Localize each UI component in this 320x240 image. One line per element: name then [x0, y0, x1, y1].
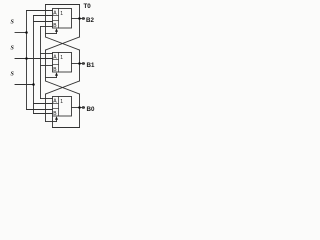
wire clock feed U1 [46, 33, 57, 35]
V2 branch to U3 pin2 [34, 103, 53, 105]
wire clock feed U2 [46, 77, 57, 79]
select lane V1 vertical [26, 11, 28, 110]
input S1 wire [15, 32, 27, 34]
connector circle B1 [82, 62, 84, 64]
clock stub U3 [56, 118, 58, 122]
junction B1-lane [78, 62, 81, 65]
wire T0 top horizontal [46, 4, 80, 6]
input S3 wire [15, 84, 34, 86]
svg-text:1: 1 [60, 55, 63, 61]
wire left lane lower segment [45, 94, 47, 122]
wire right lane lower segment [79, 94, 81, 108]
V2 branch to U1 pin3 [34, 21, 53, 23]
svg-text:B0: B0 [87, 106, 95, 113]
junction B2-lane [78, 17, 81, 20]
input S2 wire [15, 58, 53, 60]
V1 branch to U3 pin3 [27, 109, 53, 111]
flip-flop U2 (box) [53, 53, 72, 73]
X2 diagonal left-top to right-bottom [46, 81, 80, 94]
flip-flop U3 (box) [53, 97, 72, 117]
clock arrowhead U3 [55, 116, 58, 119]
V2 branch to U3 pin4 [34, 113, 53, 115]
output wire B1 [72, 63, 85, 65]
output wire B0 [72, 107, 85, 109]
wire B0 wrap rise [52, 117, 54, 128]
connector circle B0 [82, 106, 84, 108]
clock stub U1 [56, 30, 58, 34]
wire left lane mid segment [45, 50, 47, 81]
select lane V2 vertical [33, 16, 35, 114]
junction S1-V1 [25, 31, 28, 34]
wire right lane mid segment [79, 50, 81, 81]
V3 branch to U3 pin1 [41, 98, 53, 100]
V1 branch to U1 pin1 [27, 10, 53, 12]
wire clock feed U3 [46, 121, 57, 123]
output wire B2 [72, 18, 85, 20]
X1 diagonal left-top to right-bottom [46, 37, 80, 50]
wire T0 left drop lane [45, 5, 47, 38]
svg-text:S: S [11, 46, 15, 52]
svg-text:B2: B2 [86, 17, 94, 24]
junction B0-lane [78, 106, 81, 109]
junction S2-V1 [25, 57, 28, 60]
select lane V3 vertical [40, 27, 42, 99]
X2 diagonal right-top to left-bottom [46, 81, 80, 94]
svg-text:B1: B1 [87, 62, 95, 69]
svg-text:S: S [11, 20, 15, 26]
svg-text:T0: T0 [84, 3, 92, 10]
clock stub U2 [56, 74, 58, 78]
svg-text:1: 1 [60, 99, 63, 105]
svg-text:1: 1 [60, 11, 63, 17]
wire B0 wrap bottom run [53, 127, 80, 129]
clock arrowhead U1 [55, 28, 58, 31]
flip-flop U1 (box) [53, 9, 72, 29]
connector circle B2 [82, 17, 84, 19]
V3 branch to U1 pin4 [41, 26, 53, 28]
clock arrowhead U2 [55, 72, 58, 75]
svg-text:S: S [11, 72, 15, 78]
X1 diagonal right-top to left-bottom [46, 37, 80, 50]
wire B0 wrap drop [79, 108, 81, 128]
wire right lane upper segment [79, 5, 81, 38]
V3 branch to U2 pin3 [41, 65, 53, 67]
V3 branch to U2 pin1 [41, 53, 53, 55]
junction S3-V2 [32, 83, 35, 86]
V2 branch to U1 pin2 [34, 15, 53, 17]
